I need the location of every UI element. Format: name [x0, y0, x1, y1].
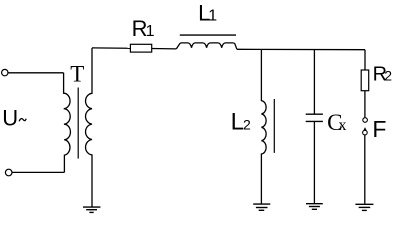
svg-text:U: U	[2, 106, 18, 131]
svg-text:x: x	[339, 117, 347, 134]
svg-text:L: L	[231, 109, 244, 136]
svg-text:2: 2	[243, 117, 251, 133]
svg-text:1: 1	[146, 23, 155, 40]
svg-text:2: 2	[384, 68, 392, 84]
svg-text:F: F	[372, 116, 386, 142]
svg-text:1: 1	[208, 8, 217, 25]
svg-text:T: T	[70, 61, 84, 86]
